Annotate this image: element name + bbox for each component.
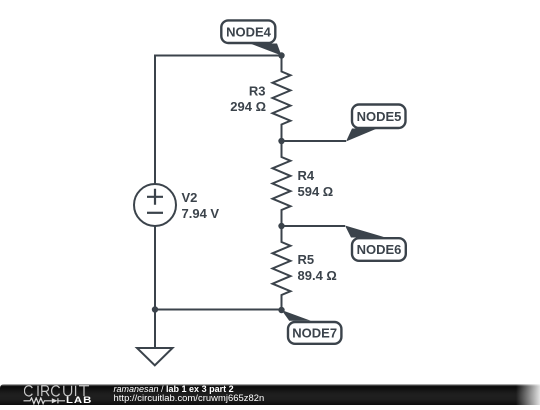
svg-text:R5: R5 (298, 252, 315, 267)
svg-text:R3: R3 (249, 84, 266, 99)
NODE5 callout box (352, 105, 406, 129)
wire left vertical from top corner to V2 (154, 55, 156, 185)
wire left vertical from V2 to ground (154, 226, 156, 348)
resistor R4 (273, 141, 334, 226)
CircuitLab logo (0, 384, 100, 405)
NODE6 callout box (352, 238, 406, 261)
resistor R3 (230, 56, 290, 142)
svg-text:R4: R4 (298, 168, 315, 183)
svg-text:89.4 Ω: 89.4 Ω (298, 268, 337, 283)
NODE7 callout box (288, 322, 341, 344)
R4 zigzag body (273, 141, 291, 226)
svg-text:594 Ω: 594 Ω (298, 184, 334, 199)
logo resistor zigzag (23, 398, 51, 404)
credit text (114, 385, 265, 402)
V2 minus sign (147, 212, 163, 214)
NODE4 callout box (221, 20, 275, 43)
junction node NODE6 (278, 223, 284, 229)
NODE7 callout tail (282, 310, 311, 321)
logo diode (51, 398, 57, 403)
node NODE5 callout (278, 105, 405, 145)
NODE4 callout tail (250, 44, 282, 56)
junction node at ground wire tee (152, 306, 158, 312)
svg-text:NODE7: NODE7 (292, 326, 337, 341)
footer bar (0, 384, 540, 405)
resistor R5 (273, 226, 337, 310)
NODE5 callout tail (346, 129, 377, 142)
ground (137, 348, 173, 365)
junction node NODE4 (278, 52, 284, 58)
junction node NODE5 (278, 138, 284, 144)
NODE6 callout tail (345, 226, 386, 238)
V2 plus sign (147, 189, 163, 205)
svg-text:NODE6: NODE6 (357, 242, 402, 257)
R3 zigzag body (273, 56, 291, 142)
svg-text:294 Ω: 294 Ω (230, 99, 266, 114)
wire stub to NODE6 (282, 225, 346, 227)
junction node NODE7 (278, 307, 284, 313)
node NODE7 callout (278, 307, 341, 344)
svg-text:V2: V2 (182, 190, 198, 205)
node NODE4 callout (221, 20, 284, 58)
svg-text:NODE5: NODE5 (357, 109, 402, 124)
wire bottom horizontal (155, 309, 282, 311)
R5 zigzag body (273, 226, 291, 310)
voltage source V2 (134, 184, 219, 226)
wire stub to NODE5 (282, 140, 347, 142)
V2 circle body (134, 184, 176, 226)
wire top horizontal from V2 top to NODE4 (155, 55, 282, 57)
svg-text:NODE4: NODE4 (226, 24, 272, 39)
svg-text:7.94 V: 7.94 V (182, 206, 220, 221)
node NODE6 callout (278, 223, 406, 261)
